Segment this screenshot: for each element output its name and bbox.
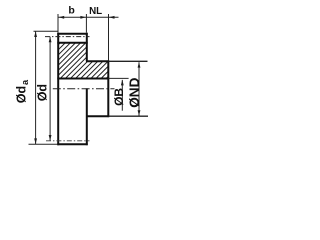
dash-dot pitch line top — [45, 36, 90, 38]
dash-dot pitch line bottom — [46, 140, 90, 142]
extension line gear right top — [85, 14, 87, 33]
dim line oND — [138, 62, 140, 115]
o-d top arrow — [49, 37, 52, 43]
extension line gear left top — [57, 14, 59, 33]
hub bottom edge — [86, 115, 109, 117]
extension line hub right top — [108, 14, 110, 61]
svg-text:b: b — [68, 5, 74, 17]
bore extension right — [109, 77, 129, 79]
b left arrow — [59, 16, 65, 19]
gear left edge — [57, 33, 59, 145]
gear right edge upper — [86, 33, 88, 62]
dash-dot axis centerline — [53, 88, 115, 90]
hub right edge — [107, 60, 109, 117]
svg-text:NL: NL — [89, 6, 102, 17]
oND bottom arrow — [138, 110, 141, 116]
tip top extension line — [34, 30, 58, 32]
o-da top arrow — [34, 31, 37, 37]
o-da bottom arrow — [34, 138, 37, 144]
thin dimension / extension lines — [29, 14, 129, 144]
gear right edge lower — [86, 88, 88, 145]
dim line o-d — [49, 37, 51, 141]
svg-text:ØND: ØND — [127, 77, 142, 107]
tip bottom extension line — [29, 143, 58, 145]
root line — [57, 42, 87, 44]
hub top edge — [86, 60, 109, 62]
top dimension line b + NL — [58, 16, 119, 18]
dim line oB — [121, 80, 123, 111]
bore line — [57, 78, 109, 80]
svg-text:Ød: Ød — [36, 84, 50, 101]
hub bottom extension right — [109, 115, 148, 117]
gear top (tip) edge — [57, 33, 87, 35]
oB top arrow — [121, 80, 124, 86]
gear outline thick lines — [57, 33, 109, 145]
gear bottom (tip) edge — [57, 143, 87, 145]
svg-text:ØB: ØB — [112, 88, 126, 106]
b right arrow — [80, 16, 86, 19]
NL right arrow (outside) — [109, 16, 115, 19]
dim line o-da — [35, 31, 37, 144]
hub top extension right — [109, 60, 148, 62]
arrowheads — [34, 16, 140, 144]
oND top arrow — [138, 62, 141, 68]
o-d bottom arrow — [49, 135, 52, 141]
hatch section lines — [13, 30, 160, 90]
